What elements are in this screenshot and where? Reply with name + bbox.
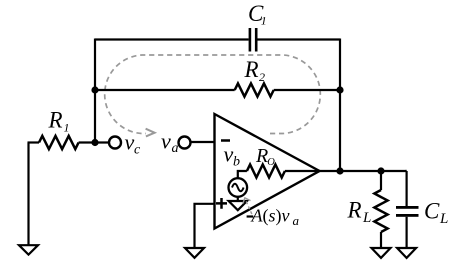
wire top from node A to node B	[95, 38, 340, 40]
resistor RL	[374, 190, 387, 232]
ground for CL	[397, 248, 416, 258]
svg-text:v: v	[224, 142, 234, 167]
svg-text:L: L	[362, 210, 371, 226]
dependent source -A(s)va	[229, 178, 248, 197]
wire CL top lead	[406, 171, 407, 206]
svg-text:1: 1	[64, 121, 70, 135]
wire CL bottom lead	[406, 217, 408, 248]
capacitor C1	[249, 28, 252, 52]
wire left vertical	[94, 39, 96, 143]
op-amp plus sign	[216, 198, 227, 209]
svg-text:a: a	[293, 213, 300, 228]
terminal va	[179, 137, 191, 149]
wire RL bottom lead	[380, 232, 382, 248]
node dot RL junction	[377, 167, 384, 174]
wire va to op-amp inverting input	[191, 141, 215, 143]
svg-text:2: 2	[259, 70, 265, 84]
wire RO to output apex	[285, 170, 320, 172]
svg-text:C: C	[424, 199, 440, 224]
wire R1 right to node vc	[79, 141, 109, 143]
svg-text:A(s)v: A(s)v	[251, 205, 290, 226]
op-amp minus sign	[221, 139, 230, 142]
node dot output junction	[336, 167, 343, 174]
wire R2 branch right	[274, 89, 340, 91]
label -A(s)va	[247, 215, 254, 217]
svg-text:L: L	[439, 211, 448, 227]
svg-text:1: 1	[261, 14, 267, 28]
resistor R2	[235, 83, 274, 96]
ground for R1	[27, 143, 29, 246]
svg-text:R: R	[347, 198, 362, 223]
capacitor CL	[396, 206, 419, 209]
ground for RL	[372, 248, 391, 258]
wire output	[320, 170, 407, 172]
dashed pointer arrow to dependent source	[246, 201, 254, 219]
svg-text:R: R	[255, 145, 268, 167]
feedback loop dashed highlight	[105, 55, 321, 134]
wire right vertical	[339, 39, 341, 172]
wire R2 branch left	[95, 89, 235, 91]
svg-text:b: b	[233, 155, 240, 170]
op-amp U1 triangle	[215, 114, 320, 229]
node dot left R2 junction	[91, 86, 98, 93]
node dot vc junction	[91, 139, 98, 146]
ground small under source	[237, 197, 239, 202]
dashed arrow head near node va	[146, 129, 155, 137]
wire vb node from source to RO	[238, 171, 247, 180]
ground for plus input	[185, 248, 204, 258]
svg-text:v: v	[161, 129, 171, 154]
svg-text:R: R	[244, 57, 259, 82]
svg-text:O: O	[267, 157, 275, 168]
resistor R1	[39, 136, 79, 149]
resistor RO	[247, 165, 285, 178]
svg-text:v: v	[125, 130, 135, 155]
wire R1 left	[28, 141, 40, 143]
node dot right R2 junction	[336, 86, 343, 93]
svg-text:c: c	[134, 143, 141, 158]
svg-text:R: R	[48, 108, 63, 133]
wire plus input to ground	[195, 204, 215, 248]
wire RL top lead	[380, 171, 382, 190]
terminal vc	[109, 137, 121, 149]
